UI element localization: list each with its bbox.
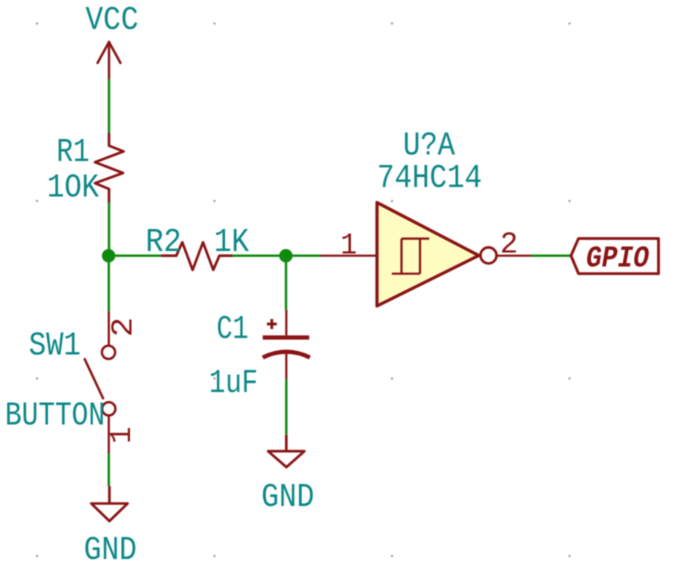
svg-text:GND: GND (84, 532, 137, 567)
svg-text:2: 2 (500, 228, 518, 263)
svg-text:1OK: 1OK (47, 169, 99, 206)
wire node A down to SW1 (108, 256, 110, 312)
wire node B down to C1 (285, 256, 287, 310)
svg-text:U?A: U?A (403, 127, 455, 164)
wire node A to R2 (109, 254, 162, 256)
wire U1 pin2 to GPIO label (531, 254, 571, 256)
output inversion bubble (481, 247, 497, 263)
svg-text:74HC14: 74HC14 (377, 160, 482, 197)
junction node A (102, 249, 115, 262)
wire node B to U1 pin 1 (286, 254, 321, 256)
svg-text:R2: R2 (146, 224, 182, 261)
svg-text:SW1: SW1 (29, 328, 81, 365)
svg-text:R1: R1 (57, 134, 90, 171)
wire R1 to node A (108, 202, 110, 256)
pin 2 of U1 (497, 255, 531, 257)
svg-text:BUTTON: BUTTON (5, 397, 105, 434)
global label GPIO (571, 239, 659, 274)
hysteresis symbol (392, 239, 429, 274)
svg-text:VCC: VCC (86, 2, 139, 39)
svg-text:2: 2 (107, 317, 142, 337)
pin 1 of U1 (321, 255, 378, 257)
wire SW1 to GND (108, 454, 110, 486)
grid dots (36, 22, 571, 557)
wire VCC to R1 (108, 79, 110, 135)
capacitor C1 (263, 310, 310, 379)
junction node B (279, 249, 292, 262)
switch SW1 (84, 311, 115, 453)
resistor R1 (95, 134, 124, 202)
svg-text:GND: GND (261, 479, 314, 516)
svg-text:C1: C1 (217, 311, 249, 348)
resistor R2 (162, 242, 232, 270)
svg-text:GPIO: GPIO (586, 242, 649, 277)
wire C1 to GND (285, 379, 287, 435)
wire R2 to node B (232, 254, 286, 256)
power symbol VCC (98, 42, 121, 79)
svg-text:1uF: 1uF (209, 365, 258, 402)
svg-text:1: 1 (340, 229, 357, 264)
ground symbol (C1) (268, 435, 304, 467)
ground symbol (SW1) (91, 486, 127, 521)
op-amp U1 triangle body (377, 203, 479, 307)
svg-text:1: 1 (105, 427, 140, 444)
